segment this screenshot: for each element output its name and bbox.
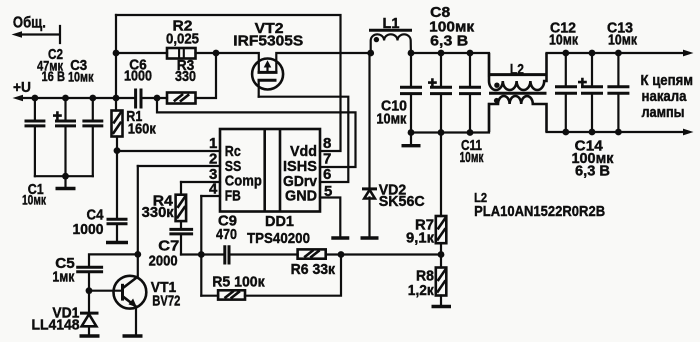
ground pin 5 xyxy=(331,236,349,239)
wire output bottom rail left section xyxy=(411,104,489,133)
svg-text:накала: накала xyxy=(642,89,688,105)
wire top rail y=15 with Vdd drop at x=340.5 xyxy=(116,15,341,151)
svg-text:лампы: лампы xyxy=(642,105,685,121)
node R7/R8 xyxy=(438,251,445,258)
pin 1 Rc xyxy=(117,135,241,160)
svg-text:TPS40200: TPS40200 xyxy=(247,230,310,247)
node C2 rail xyxy=(62,95,69,102)
svg-text:1мк: 1мк xyxy=(52,270,75,286)
svg-text:R5 100к: R5 100к xyxy=(212,275,265,291)
wire C5 branch xyxy=(89,254,138,265)
pin 3 Comp xyxy=(181,166,262,190)
wire output bottom rail right section with arrow xyxy=(547,129,694,136)
svg-text:L2: L2 xyxy=(510,62,524,78)
node C3 rail xyxy=(89,95,96,102)
node R2/R3 right xyxy=(213,50,220,57)
capacitor C10 xyxy=(400,53,422,133)
capacitor C4 xyxy=(107,151,128,241)
resistor R1 xyxy=(112,111,123,151)
node C12 bottom xyxy=(562,129,569,136)
node C11 bottom xyxy=(467,129,474,136)
svg-text:1,2к: 1,2к xyxy=(408,283,435,299)
node C5/VD1/base xyxy=(86,287,93,294)
node C6/R3 xyxy=(154,95,161,102)
node C1 rail xyxy=(32,95,39,102)
node L1 left xyxy=(367,50,374,57)
node C8 bottom / R7 xyxy=(438,129,445,136)
node rail x116 xyxy=(113,95,120,102)
svg-text:10мк: 10мк xyxy=(68,69,94,84)
capacitor C2 (polar) xyxy=(53,98,76,176)
svg-text:К цепям: К цепям xyxy=(641,73,694,89)
diode VD2 xyxy=(362,53,377,236)
svg-text:16 В: 16 В xyxy=(42,69,66,84)
node C13 bottom xyxy=(615,129,622,136)
wire R3 right to R2 node xyxy=(196,53,217,98)
svg-text:10мк: 10мк xyxy=(608,33,638,49)
svg-text:GND: GND xyxy=(285,188,317,205)
svg-text:5: 5 xyxy=(324,183,332,200)
ground output common xyxy=(402,133,421,146)
svg-text:160к: 160к xyxy=(128,122,157,138)
svg-text:C7: C7 xyxy=(158,239,179,255)
pin 2 SS xyxy=(138,151,242,176)
svg-text:10мк: 10мк xyxy=(460,150,485,166)
resistor R4 xyxy=(176,182,187,228)
node C2 bottom xyxy=(62,173,69,180)
wire R2 row y=53 xyxy=(116,53,259,72)
wire VT2 drain to L1 node xyxy=(276,53,370,72)
svg-text:1: 1 xyxy=(209,135,217,152)
node L1 right / C10 top xyxy=(408,50,415,57)
diode VD1 xyxy=(80,291,99,335)
resistor R2 (shunt 0,025) xyxy=(167,48,196,59)
capacitor C12 xyxy=(555,53,577,132)
transistor VT2 xyxy=(252,59,283,97)
inductor L1 xyxy=(369,30,412,53)
wire SS net vertical (pin2 to VT1 collector) xyxy=(137,166,139,278)
IC DD1 box xyxy=(220,129,320,212)
pin 6 GDrv xyxy=(283,166,331,190)
resistor R3 xyxy=(167,93,196,104)
svg-text:2000: 2000 xyxy=(149,254,178,270)
ground C4 xyxy=(106,241,128,244)
wire ISHS net from node (157,98) to pin 7 xyxy=(157,98,356,167)
svg-text:10мк: 10мк xyxy=(549,33,579,49)
resistor R8 xyxy=(436,255,447,305)
resistor R6 xyxy=(298,249,326,258)
svg-text:330к: 330к xyxy=(142,205,175,221)
resistor R7 xyxy=(436,133,447,255)
node R6/R5 right xyxy=(338,251,345,258)
wire left vertical x=116 xyxy=(115,15,117,111)
node SS/C5/VT1 xyxy=(134,251,141,258)
svg-text:8: 8 xyxy=(323,135,331,152)
node Общ. terminal arrow xyxy=(12,26,61,43)
svg-text:IRF5305S: IRF5305S xyxy=(233,34,303,50)
node C11 top xyxy=(467,50,474,57)
svg-text:6,3 В: 6,3 В xyxy=(430,34,468,50)
pin 4 FB xyxy=(201,181,241,205)
wire +U rail y=98 xyxy=(35,97,167,99)
pin 8 Vdd xyxy=(290,135,331,160)
svg-text:9,1к: 9,1к xyxy=(406,231,435,247)
svg-text:470: 470 xyxy=(216,227,237,243)
ground VD2 xyxy=(361,236,379,239)
transistor VT1 xyxy=(89,276,146,334)
svg-text:10мк: 10мк xyxy=(376,112,407,128)
wire output top rail left section xyxy=(411,53,489,76)
capacitor C1 xyxy=(25,98,46,176)
svg-text:DD1: DD1 xyxy=(265,213,294,230)
svg-text:330: 330 xyxy=(175,69,196,85)
capacitor C6 (series) xyxy=(136,89,141,109)
svg-text:1000: 1000 xyxy=(124,69,152,85)
capacitor C7 xyxy=(169,229,193,254)
node C8 top xyxy=(438,50,445,57)
resistor R5 xyxy=(201,255,341,300)
wire gate to GDrv pin 6 xyxy=(259,97,349,182)
pin 5 GND xyxy=(285,183,340,236)
capacitor C8 (polar) xyxy=(428,53,452,133)
svg-text:1000: 1000 xyxy=(73,222,104,238)
capacitor C9 (series) xyxy=(225,245,229,264)
node +U input arrow xyxy=(13,95,35,101)
svg-text:PLA10AN1522R0R2B: PLA10AN1522R0R2B xyxy=(474,204,605,220)
node R1 bottom xyxy=(114,147,121,154)
pin 7 ISHS xyxy=(283,151,331,176)
svg-text:4: 4 xyxy=(209,181,218,198)
ground VT1 emitter xyxy=(123,334,143,337)
svg-text:R6 33к: R6 33к xyxy=(291,262,336,278)
svg-text:0,025: 0,025 xyxy=(166,32,199,48)
wire C1-C3 bottom join xyxy=(35,176,93,186)
node C14 top xyxy=(589,50,596,57)
capacitor C3 xyxy=(82,98,103,176)
svg-text:BV72: BV72 xyxy=(152,294,180,310)
svg-text:6,3 В: 6,3 В xyxy=(575,164,610,180)
svg-text:SK56C: SK56C xyxy=(379,194,425,210)
transformer L2 xyxy=(489,53,547,132)
ground VD1 xyxy=(80,334,100,337)
node R2 left xyxy=(113,50,120,57)
svg-text:FB: FB xyxy=(225,188,241,205)
capacitor C13 xyxy=(607,53,629,132)
capacitor C5 xyxy=(76,267,103,291)
svg-text:2: 2 xyxy=(209,151,217,168)
node FB junction xyxy=(198,251,205,258)
wire output top rail right section with arrow xyxy=(547,50,694,57)
node C13 top xyxy=(615,50,622,57)
node C14 bottom xyxy=(589,129,596,136)
svg-text:Общ.: Общ. xyxy=(13,15,46,32)
svg-text:+U: +U xyxy=(13,80,31,96)
svg-text:7: 7 xyxy=(323,151,331,168)
svg-text:C8: C8 xyxy=(430,5,450,21)
node C12 top xyxy=(562,50,569,57)
svg-text:6: 6 xyxy=(323,166,331,183)
wire FB net horizontal xyxy=(181,253,441,255)
capacitor C14 (polar) xyxy=(578,53,603,132)
svg-text:10мк: 10мк xyxy=(22,193,46,208)
wire FB vertical from pin4 to R5 xyxy=(200,196,202,296)
ground input caps xyxy=(56,187,76,190)
node C10 bottom xyxy=(408,129,415,136)
svg-text:LL4148: LL4148 xyxy=(32,318,80,334)
svg-text:L2: L2 xyxy=(474,190,487,205)
svg-text:L1: L1 xyxy=(383,16,400,32)
capacitor C11 xyxy=(459,53,481,133)
ground R8 xyxy=(432,305,452,308)
